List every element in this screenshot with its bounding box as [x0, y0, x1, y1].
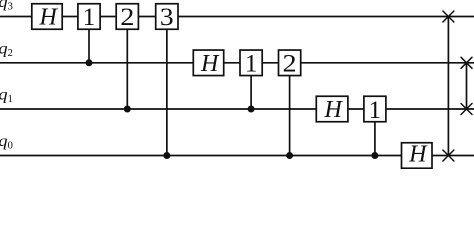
- svg-text:1: 1: [369, 97, 382, 124]
- svg-text:H: H: [324, 97, 344, 123]
- svg-text:1: 1: [83, 4, 96, 31]
- svg-text:3: 3: [160, 3, 174, 31]
- svg-text:H: H: [408, 141, 428, 167]
- svg-text:2: 2: [120, 3, 134, 31]
- svg-text:1: 1: [245, 50, 258, 77]
- svg-text:H: H: [200, 51, 220, 77]
- svg-text:2: 2: [283, 49, 297, 77]
- svg-text:q3: q3: [0, 0, 13, 13]
- svg-text:H: H: [39, 5, 59, 31]
